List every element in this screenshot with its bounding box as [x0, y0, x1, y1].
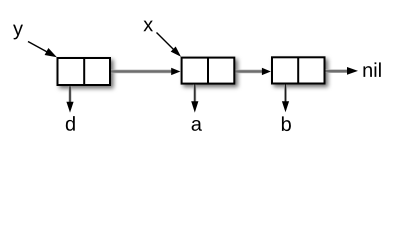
label nil — [363, 62, 380, 76]
wire cdr of cell3 to nil — [326, 67, 359, 75]
wire y to cell1 — [28, 42, 57, 58]
cons cell 3 — [272, 57, 325, 83]
wire car of cell2 to a — [191, 85, 198, 113]
label d — [66, 116, 75, 131]
wire cdr of cell1 to cell2 — [111, 68, 180, 75]
label a — [192, 120, 202, 131]
label b — [282, 116, 291, 131]
cons cell 1 (pointed to by y) — [58, 58, 111, 85]
wire car of cell1 to d — [66, 86, 73, 112]
cons cell 2 (pointed to by x) — [182, 58, 235, 84]
label y — [13, 25, 23, 40]
wire car of cell3 to b — [282, 85, 289, 113]
label x — [143, 21, 153, 32]
wire x to cell2 — [157, 33, 182, 57]
wire cdr of cell2 to cell3 — [236, 68, 271, 75]
